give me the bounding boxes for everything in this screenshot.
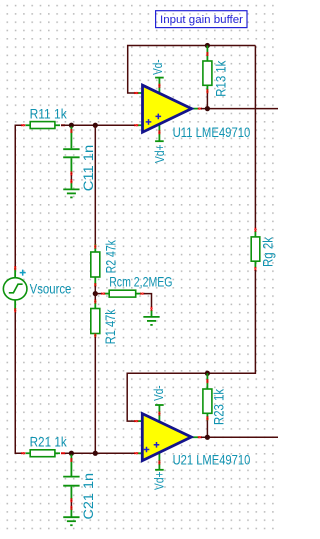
svg-text:R11 1k: R11 1k [30, 106, 68, 122]
resistor R23 [203, 373, 212, 437]
node dot R23 top [205, 371, 210, 376]
wire: R1 down to bottom net [94, 337, 96, 453]
wire: left bus top segment (Vin+ to R11) [15, 125, 23, 267]
svg-text:R23 1k: R23 1k [211, 388, 227, 425]
wire: top input net y=125 [61, 124, 136, 126]
title box "Input gain buffer" [156, 11, 247, 28]
wire: U11 output to right edge [201, 108, 278, 110]
svg-text:R1 47k: R1 47k [102, 308, 118, 344]
node dot B2 [93, 451, 98, 456]
svg-text:R2 47k: R2 47k [102, 239, 118, 273]
svg-text:Rcm 2,2MEG: Rcm 2,2MEG [109, 274, 172, 290]
svg-text:Rg 2k: Rg 2k [259, 236, 275, 267]
node dot B1 [69, 451, 74, 456]
op-amp U21 [137, 405, 199, 470]
svg-text:Vd-: Vd- [151, 385, 166, 401]
resistor R13 [203, 46, 212, 109]
Vsource V1 [3, 268, 27, 311]
resistor Rg [251, 231, 260, 268]
svg-text:Vd+: Vd+ [152, 144, 167, 163]
resistor R1 [91, 300, 100, 337]
wire: bottom input net y=453.2 [61, 452, 136, 454]
resistor Rcm [95, 290, 141, 297]
wire: Rg down to U21 feedback [127, 270, 255, 421]
wire: Rcm to ground [144, 294, 152, 308]
resistor R11 [26, 122, 61, 129]
wire: right bus (Rg net) [254, 46, 256, 229]
wire: left bus bottom segment [15, 311, 23, 454]
op-amp U11 [137, 78, 199, 142]
node dot A1 [69, 123, 74, 128]
node dot R13 top [205, 43, 210, 48]
wire: middle bus from top net down to R2 [94, 125, 96, 246]
ground below C21 [63, 517, 79, 525]
ground at Rcm [143, 317, 159, 325]
wire: node to R1 [94, 294, 96, 300]
svg-text:U21 LME49710: U21 LME49710 [173, 451, 251, 467]
svg-text:Input gain buffer: Input gain buffer [160, 14, 243, 26]
svg-text:C21 1n: C21 1n [80, 473, 96, 520]
node dot R13 bottom [205, 106, 210, 111]
capacitor C11 [63, 127, 79, 190]
node dot A2 [93, 123, 98, 128]
node dot R23 bottom [205, 435, 210, 440]
node dot mid [93, 291, 98, 296]
capacitor C21 [63, 455, 79, 518]
svg-text:Vd+: Vd+ [152, 471, 167, 490]
wire: U21 output to right edge [201, 436, 278, 438]
svg-text:U11 LME49710: U11 LME49710 [173, 124, 251, 140]
svg-text:R21 1k: R21 1k [30, 434, 68, 450]
svg-text:R13 1k: R13 1k [213, 60, 229, 97]
resistor R2 [91, 244, 100, 286]
wire: U11 inverting feedback loop left/top [128, 46, 256, 94]
svg-text:Vsource: Vsource [30, 280, 72, 296]
svg-text:C11 1n: C11 1n [80, 145, 96, 192]
wire: R2 to node [94, 286, 96, 294]
ground below C11 [63, 189, 79, 197]
svg-text:Vd-: Vd- [150, 59, 165, 75]
resistor R21 [26, 450, 61, 457]
